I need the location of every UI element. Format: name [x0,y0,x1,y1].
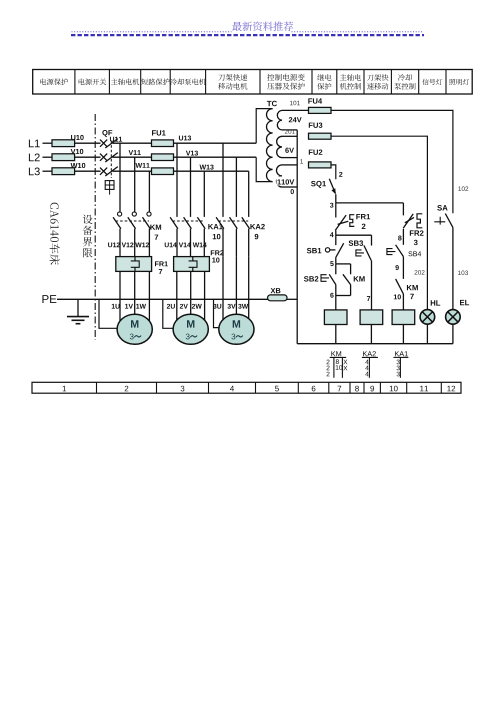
wire label W14 [193,243,207,248]
wire label V13 [186,151,198,156]
zone strip divider 1 [96,382,98,393]
contact pole 2 of KA1 blade [184,217,192,229]
KA2 contact ref 2 [365,366,368,371]
SB3 branch corner wire [371,235,373,245]
contact pole 2 of KA2 : wire from bus [235,157,237,217]
wire SB1 to node 5 [335,258,337,264]
zone number 7 [338,386,342,392]
thermal relay heater FR1 [116,257,152,272]
node 3 horizontal wire [336,202,404,204]
zone number 9 [370,386,374,392]
terminal block on L2 [52,154,75,161]
contact pole 1 of KA2 : wire from bus [222,143,224,217]
KM main contact ref 3 [327,372,330,377]
KM aux ref 10 [336,365,343,370]
PE branch to motor M3 frame [214,299,219,327]
SB2 blade [329,274,336,284]
bus V13 [174,156,257,158]
contact pole 3 of KA1 lower wire [203,229,205,257]
KA1 contact ref 3 [397,372,400,377]
wire label W13 [200,165,214,170]
bus U13 [174,142,257,144]
relay coil KA1 [392,310,415,325]
dashed header rule [71,34,424,36]
zone number 8 [355,386,359,392]
SB3 actuator [356,250,364,256]
header cell label 短路保护 [141,78,169,85]
wire label W10 [71,163,86,168]
contact pole 1 of KA1 blade [170,217,178,229]
fuse FU1 element 2 [152,154,174,161]
header table column divider 3 [140,70,142,95]
FR2 NC contact blade [403,214,413,228]
wire label U10 [71,135,84,140]
winding label 110V [277,177,296,186]
contact pole 3 of KM blade [143,217,151,229]
wire 2W [204,271,206,322]
zone number 3 [181,386,185,392]
zone number 2 [125,386,129,392]
header cell label 信号灯 [422,79,442,85]
header cell label 刀架快速移动 [367,74,388,81]
header table column divider 7 [311,70,313,95]
wire to breaker QF pole 3 [75,170,101,172]
motor terminal label 2U [167,304,175,309]
fuse FU1 element 1 [152,140,174,147]
fuse FU4 [308,98,322,103]
zone number 5 [275,386,279,392]
wire from QF pole 2 to FU1 [113,156,152,158]
wire U10 from L1 [43,142,53,144]
breaker label QF [102,130,112,137]
zone number 12 [447,386,455,392]
motor terminal label 2W [192,304,202,309]
zone number 6 [312,386,316,392]
breaker QF pole 2 contact cross [100,154,107,161]
cross-ref table KA2 [363,351,376,356]
contact pole 2 of KA2 blade [230,217,238,229]
wire 3V [235,257,237,318]
contact pole 3 of KM lower wire [148,229,150,257]
header cell label 照明灯 [449,79,469,85]
linkage dashed line of KA1 [173,220,204,222]
wire FR1 to node 4 [335,230,337,235]
contact pole 2 of KM blade [128,217,136,229]
zone number 1 [63,386,66,392]
FR2 contact label [410,230,424,235]
KM latch blade [343,274,351,284]
wire SA to EL [452,227,454,311]
TC primary winding [267,109,273,182]
signal lamp HL [420,310,435,325]
breaker QF pole 3 contact cross [100,168,107,175]
KM NO contact blade [396,279,404,294]
contact pole 2 of KM moving-contact circle [132,212,136,216]
KM main contact ref 1 [327,360,330,365]
TC secondary 110V winding [282,164,297,166]
node 8 label [398,236,401,241]
SB1 actuator [325,248,329,252]
wire HL to rail [426,324,428,344]
TC primary bottom lead [256,157,272,181]
wire number 2 [339,172,342,177]
SB4 actuator [387,249,396,255]
node 6 label [330,293,333,298]
motor M1 spindle [117,314,152,344]
supply terminal label L3 [29,168,40,176]
header table column divider 10 [390,70,392,95]
contact pole 3 of KM moving-contact circle [147,212,151,216]
header table column divider 5 [205,70,207,95]
wire number 102 [458,186,468,191]
contactor contact label KA2 9 [250,224,264,229]
SQ1 arrow head [331,188,335,194]
contact pole 2 of KA1 lower wire [190,229,192,257]
wire FU2 to SQ1 (wire 2) [331,165,336,179]
equipment boundary dash-dot line [94,114,96,340]
connector label XB [271,288,281,293]
node 9 label [395,265,398,270]
wire node 9 [402,256,404,279]
contactor coil KM [324,310,347,325]
KM latch upper stub [350,264,352,274]
breaker QF pole 2 blade [105,153,118,162]
bottom zone number strip frame [32,382,461,393]
wire label U13 [179,136,191,141]
wire 3U [222,257,224,321]
terminal block on L1 [52,140,75,147]
wire 2V [190,271,192,318]
FR1 contact label [356,214,370,219]
header table column divider 1 [74,70,76,95]
motor terminal label 3U [213,304,221,309]
KA1 contact ref 1 [397,360,400,365]
KM NO contact (KA1 branch) label [407,285,418,290]
supply terminal label L2 [29,154,40,162]
wire label V10 [71,149,84,154]
TC secondary 24V winding [282,109,309,111]
wire label W11 [136,163,150,168]
motor terminal label 3V [227,304,235,309]
function zone header table frame [33,70,473,95]
motor terminal label 2V [180,304,188,309]
header cell label 冷却泵电机 [170,78,205,85]
machine name CA6140车床 (rotated) [50,203,60,265]
bus W13 [174,170,249,172]
FR1 NC contact break tick [338,221,349,224]
lamp label EL [460,300,469,305]
zone strip divider 7 [349,382,351,393]
motor M3 rapid traverse [219,314,254,344]
header cell label 主轴电机 [111,78,139,85]
earth label PE [42,295,56,303]
motor M2 cooling pump [173,314,208,344]
header table column divider 2 [108,70,110,95]
wire number 202 [415,270,425,275]
supply terminal label L1 [29,140,40,148]
wire 1U [119,271,121,321]
TC secondary 6V winding [282,135,297,137]
KM aux ref X [343,360,347,365]
terminal label 201 [285,129,295,134]
wire SB3 to KA2 coil [371,261,373,310]
contact pole 2 of KM : wire from bus [134,157,136,211]
SA actuator [434,217,445,225]
breaker QF pole 3 blade [105,167,118,176]
contact pole 1 of KA2 lower wire [222,229,224,257]
PE bus wire [57,298,268,300]
header table column divider 8 [336,70,338,95]
terminal label 1 [300,159,303,163]
wire KA2 coil to rail [370,325,372,344]
zone strip divider 4 [255,382,257,393]
contact pole 3 of KA2 blade [242,217,250,229]
KM aux ref 8 [336,359,339,364]
winding label 24V [289,117,302,122]
contact pole 2 of KA1 : wire from bus [190,157,192,217]
relay coil KA2 [360,310,383,325]
contact pole 1 of KA1 lower wire [176,229,178,257]
winding label 6V [285,148,294,153]
contact pole 2 of KA2 lower wire [235,229,237,257]
zone number 11 [420,386,428,392]
motor terminal label 1V [125,304,133,309]
control common vertical wire (0) [296,130,298,344]
wire node 8 [402,229,404,245]
start button label SB2 [304,276,318,281]
contact pole 2 of KM lower wire [134,229,136,257]
terminal label 0 [291,189,294,194]
zone strip divider 6 [328,382,330,393]
FR1 NC contact blade [335,215,346,230]
wire node10 to KA1 coil [402,294,404,310]
node 5 label [330,261,333,266]
header cell label 刀架快速移动电机 [218,74,247,81]
wire V10 from L2 [43,156,53,158]
wire to breaker QF pole 1 [75,142,101,144]
signal lamp EL [446,310,461,325]
breaker QF pole 1 contact cross [100,140,107,147]
contact pole 1 of KA2 blade [216,217,224,229]
wire 2U [176,271,178,321]
contact pole 3 of KM : wire from bus [148,171,150,211]
QF linkage dashed line [110,141,112,179]
zone strip divider 3 [208,382,210,393]
wire label V11 [129,150,141,155]
wire 3W [248,257,250,322]
linkage dashed line of KA2 [219,220,249,222]
button label SB3 [349,240,363,245]
KA2 contact ref 3 [365,372,368,377]
switch label SA [437,205,447,211]
node 4 label [330,232,334,237]
zone strip divider 5 [297,382,299,393]
SB2 upper stub [335,264,337,274]
KA1 contact ref 2 [397,366,400,371]
KA2 contact ref 1 [365,360,368,365]
FR2 thermal hook symbol [417,214,422,228]
header cell label 控制电源变压器及保护 [267,74,305,81]
zone number 10 [390,386,398,392]
zone number 4 [230,386,234,392]
FR1 thermal hook symbol [350,215,355,227]
node 5 branch wire [336,263,351,265]
SB4 blade [396,245,404,257]
wire from QF pole 1 to FU1 [113,142,152,144]
node 10 label [394,294,401,299]
FR1 NC contact upper stub [335,203,337,218]
FR2 branch upper stub [402,203,404,216]
stop button label SB1 [307,248,322,253]
contact pole 1 of KM moving-contact circle [118,212,122,216]
terminal label 101 [290,101,300,106]
node 7 label [367,296,370,301]
contactor contact label KA1 10 [208,224,222,229]
wire node6 to KM coil [335,296,337,310]
PE branch to motor M1 frame [99,299,117,328]
header table column divider 11 [418,70,420,95]
lamp label HL [431,300,441,305]
contact pole 3 of KA2 lower wire [248,229,250,257]
node 6 wire [336,295,351,297]
cross-ref table KA1 [395,351,408,356]
breaker QF pole 1 blade [105,139,118,148]
wire label V12 [122,242,134,247]
wire XB to control common [287,298,297,300]
wire KM coil to rail [335,325,337,344]
header table column divider 12 [445,70,447,95]
header table column divider 6 [259,70,261,95]
zone strip divider 9 [379,382,381,393]
contact pole 3 of KA2 : wire from bus [248,171,250,217]
zone strip divider 8 [363,382,365,393]
FR2 NC contact break tick [405,217,414,222]
wire label U11 [110,137,122,142]
limit switch label SQ1 [311,181,326,188]
zone strip divider 10 [406,382,408,393]
wire 1W [148,271,150,322]
dotted leader right [292,31,424,33]
KM main contact ref 2 [327,366,330,371]
KM latch lower stub [350,285,352,296]
control circuit bottom rail (0) [297,343,453,345]
wire to breaker QF pole 2 [75,156,101,158]
wire W10 from L3 [43,170,53,172]
contactor contact label KM 7 [150,225,161,230]
zone strip divider 2 [156,382,158,393]
connector XB [268,295,287,301]
wire label U12 [108,242,120,247]
header cell label 电源开关 [79,78,107,85]
thermal relay label FR2 10 [211,250,224,255]
TC primary top lead [256,109,272,144]
zone strip divider 11 [440,382,442,393]
contact pole 1 of KA1 : wire from bus [176,143,178,217]
header cell label 继电保护 [317,74,331,81]
QF operator symbol [105,181,114,190]
contact pole 1 of KM lower wire [119,229,121,257]
wire KA1 coil to rail [402,325,404,344]
KM aux ref X2 [343,366,347,371]
contact pole 3 of KA1 blade [197,217,205,229]
header table column divider 4 [169,70,171,95]
motor terminal label 3W [238,304,248,309]
terminal block on L3 [52,168,75,175]
wire label V14 [179,243,191,248]
wire number 103 [458,271,468,276]
contact pole 1 of KM : wire from bus [119,143,121,211]
equipment boundary label 设备界限 (vertical) [83,215,93,224]
wire EL to rail [452,324,454,344]
thermal relay heater FR2 [174,257,210,272]
wire from QF pole 3 to FU1 [113,170,152,172]
KM latch contact label [354,276,365,281]
limit switch SQ1 blade [329,179,335,194]
wire FU3 to HL branch (202) [331,136,427,311]
wire FU4 to EL branch (102) [331,110,453,213]
node 4 horizontal wire [336,234,372,236]
contact pole 3 of KA1 : wire from bus [203,171,205,217]
wire label U14 [165,243,177,248]
fuse group label FU1 [152,130,166,135]
transformer label TC [267,101,277,107]
fuse FU2 [309,149,323,154]
title text 最新资料推荐 [232,21,293,31]
wire 1V [134,271,136,318]
wire SQ1 to node 3 [335,194,337,203]
SB2 actuator [321,275,329,282]
header table column divider 9 [363,70,365,95]
fuse FU1 element 3 [152,168,174,175]
PE branch to motor M2 frame [163,299,174,328]
switch SA blade [445,214,453,228]
motor terminal label 1U [112,304,120,309]
SB1 upper stub [335,235,337,245]
header cell label 冷却泵控制 [398,74,412,81]
contact pole 1 of KM blade [113,217,121,229]
linkage dashed line of KM [116,220,149,222]
ground symbol [77,299,79,316]
cross-ref table KM [331,351,341,356]
fuse FU3 [309,122,323,127]
dotted leader left [72,31,232,33]
motor terminal label 1W [136,304,146,309]
header cell label 电源保护 [40,78,68,85]
SB1 blade [336,243,344,258]
wire label W12 [135,242,149,247]
SB3 blade [364,245,371,260]
wire SB2 to node 6 [335,285,337,296]
thermal relay label FR1 7 [155,261,168,266]
node 3 label [330,203,333,208]
header cell label 主轴电机控制 [340,74,361,81]
button label SB4 [408,251,421,256]
